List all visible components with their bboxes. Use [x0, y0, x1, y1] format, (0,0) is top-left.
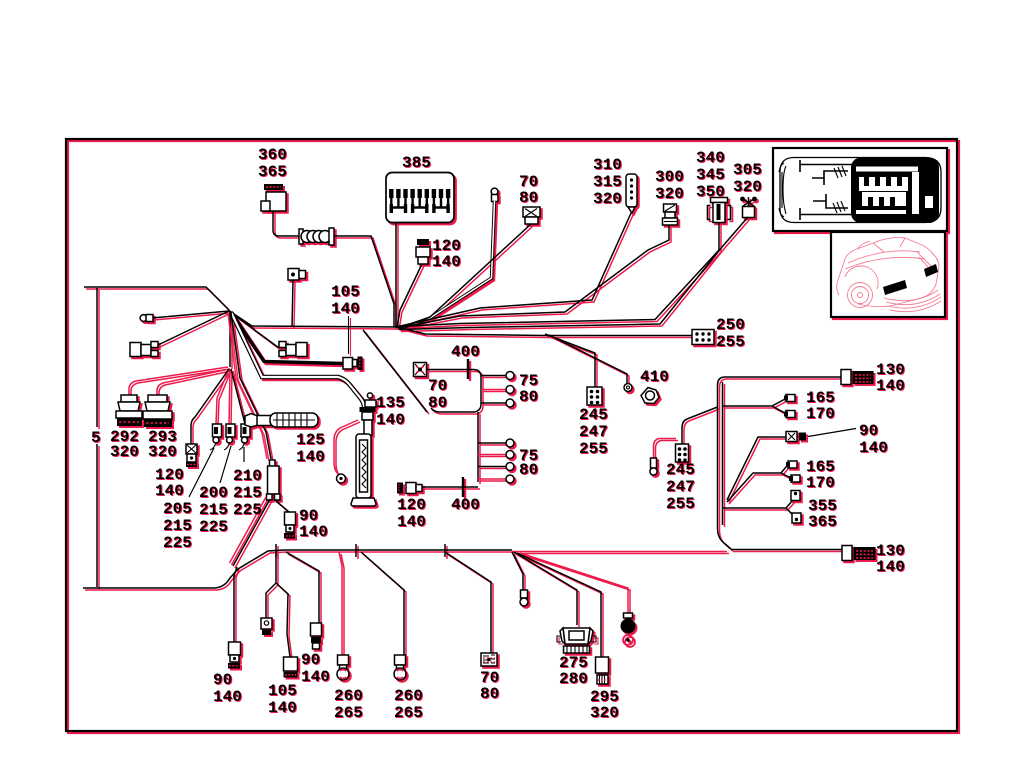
wire fan1 to connector B — [229, 311, 279, 348]
box 385 — [386, 173, 454, 223]
svg-text:320: 320 — [148, 443, 177, 461]
svg-text:140: 140 — [859, 439, 888, 457]
svg-text:255: 255 — [666, 495, 695, 513]
connector A (left plug) — [130, 343, 141, 357]
wire red to connector 292 — [129, 367, 228, 397]
svg-text:410: 410 — [640, 368, 669, 386]
border frame — [66, 139, 957, 731]
connector 250/255 — [692, 330, 714, 345]
SEC-LEFT — [83, 287, 512, 588]
wire 165/170 no2 — [727, 465, 791, 503]
wire 310 to junction2 — [398, 212, 632, 327]
wire to 275/280 — [514, 552, 577, 625]
wire 90/140 right — [727, 437, 786, 500]
svg-text:225: 225 — [199, 518, 228, 536]
wire to 260/265 no2 — [361, 552, 404, 655]
svg-text:320: 320 — [110, 443, 139, 461]
connector 70/80 bottom — [481, 653, 497, 666]
svg-text:320: 320 — [655, 185, 684, 203]
svg-text:105: 105 — [331, 283, 360, 301]
wire grommet to junction2 — [334, 236, 394, 327]
wire top-left horizontal — [84, 287, 229, 310]
wire branch to 245 box1 — [545, 334, 595, 387]
terminals 355/365 — [791, 491, 801, 524]
injector connector — [267, 460, 281, 500]
connector 130/140 bottom — [842, 546, 875, 561]
round black connector — [621, 613, 636, 645]
SEC-RIGHT — [650, 370, 875, 561]
wire 165/170 no1 — [723, 399, 787, 414]
wire 70/80 top to junction2 — [399, 224, 531, 329]
svg-text:170: 170 — [806, 474, 835, 492]
wire to round black connector — [520, 553, 628, 615]
connector 90/140 mid — [284, 512, 296, 539]
wire 120/140 mid to bus — [422, 486, 478, 488]
svg-text:105: 105 — [268, 682, 297, 700]
leader 90/140 right — [808, 429, 856, 437]
small connector 3 — [241, 424, 250, 443]
terminals 165/170 no1 — [784, 395, 795, 418]
pin terminal bottom — [520, 590, 528, 606]
svg-text:255: 255 — [579, 440, 608, 458]
wire red to connector 293 — [157, 369, 229, 398]
connector 245/247/255 box1 — [587, 387, 602, 405]
pin terminal top — [491, 188, 498, 201]
connector 135-line end (black cap) — [343, 357, 363, 371]
svg-text:245: 245 — [666, 461, 695, 479]
svg-text:140: 140 — [296, 448, 325, 466]
svg-text:350: 350 — [696, 183, 725, 201]
connector 90/140 right — [786, 432, 806, 442]
svg-text:385: 385 — [402, 154, 431, 172]
svg-text:225: 225 — [163, 534, 192, 552]
junction tick 2 — [355, 544, 357, 557]
stub g2 1 — [478, 442, 506, 444]
svg-text:80: 80 — [519, 461, 538, 479]
svg-text:90: 90 — [213, 671, 232, 689]
svg-text:140: 140 — [155, 482, 184, 500]
svg-text:247: 247 — [579, 423, 608, 441]
svg-text:320: 320 — [590, 704, 619, 722]
svg-text:140: 140 — [299, 523, 328, 541]
wire 5 vertical — [96, 288, 98, 587]
svg-text:5: 5 — [91, 429, 101, 447]
svg-text:135: 135 — [376, 394, 405, 412]
SEC-MID — [228, 312, 714, 566]
small connector 1 — [213, 424, 222, 443]
red main bottom line — [512, 551, 727, 553]
terminals 165/170 no2 — [786, 461, 800, 482]
svg-text:140: 140 — [397, 513, 426, 531]
svg-text:365: 365 — [808, 513, 837, 531]
SEC-BOTTOM — [228, 544, 727, 684]
svg-text:247: 247 — [666, 478, 695, 496]
svg-text:345: 345 — [696, 166, 725, 184]
connector B (right plug) — [279, 342, 286, 348]
device 125/140 — [245, 413, 318, 427]
svg-text:225: 225 — [233, 501, 262, 519]
red parallel of fan1-injector wire — [228, 313, 267, 459]
connector 70/80 top — [523, 207, 540, 224]
tick 400 bottom — [462, 477, 464, 497]
rings g2 — [506, 439, 514, 483]
svg-text:200: 200 — [199, 484, 228, 502]
svg-text:255: 255 — [716, 333, 745, 351]
stub g1 third — [481, 402, 506, 404]
pigtail small connector 3 — [239, 442, 245, 450]
wire to pin bottom — [512, 552, 523, 592]
stub g2 4 — [478, 478, 506, 480]
connector 90/140 bottomleft — [228, 642, 241, 669]
connector 245 box2 — [676, 444, 689, 462]
small connector 2 — [226, 424, 235, 443]
connector 310/315/320 — [626, 174, 637, 213]
terminal sleeve — [650, 458, 657, 475]
connector 295/320 — [596, 657, 609, 684]
connector 400 — [414, 363, 427, 377]
connector 260/265 no2 — [394, 655, 406, 680]
bottom line to 130/140 bottom — [731, 549, 842, 551]
main line left of junction2 — [230, 311, 398, 327]
wire to small connector 3 — [231, 369, 245, 424]
svg-text:280: 280 — [559, 670, 588, 688]
svg-text:265: 265 — [394, 704, 423, 722]
svg-text:90: 90 — [301, 651, 320, 669]
svg-text:300: 300 — [655, 168, 684, 186]
connector 360/365 — [261, 184, 286, 211]
svg-text:140: 140 — [876, 377, 905, 395]
bundle second line — [722, 382, 724, 525]
connector 292/320 — [116, 395, 142, 426]
SEC-TOPRIGHT — [398, 148, 947, 330]
svg-text:125: 125 — [296, 431, 325, 449]
svg-text:140: 140 — [213, 688, 242, 706]
svg-text:260: 260 — [334, 687, 363, 705]
svg-text:305: 305 — [733, 161, 762, 179]
connector 130/140 top — [841, 370, 873, 385]
connector 105/140 top — [288, 269, 306, 281]
red wire 245 box2 terminal — [654, 439, 677, 460]
leader 205/215/225 — [189, 448, 214, 497]
svg-text:80: 80 — [480, 685, 499, 703]
svg-text:140: 140 — [331, 300, 360, 318]
svg-text:120: 120 — [397, 496, 426, 514]
connector 340/345/350 — [708, 198, 731, 223]
svg-text:80: 80 — [519, 388, 538, 406]
wire Y-split to small square and 105/140 — [266, 551, 290, 657]
svg-text:400: 400 — [451, 343, 480, 361]
wire to 245 box2 — [682, 407, 718, 444]
pigtail small connector 2 — [224, 442, 230, 450]
wire 355/365 — [723, 500, 795, 516]
wire 340 to junction2 — [398, 222, 719, 327]
ring 410 — [624, 384, 632, 392]
stub 75 g1 — [481, 375, 506, 377]
stub g2 3 — [478, 466, 506, 468]
wire fan1 double-line to coil — [232, 313, 365, 407]
stub 80 g1 — [481, 389, 506, 391]
pigtail small connector 1 — [210, 442, 216, 450]
wire fan1 to connector A — [158, 311, 229, 345]
wire 385 to junction2 — [395, 223, 397, 328]
wire pin to junction2 — [400, 201, 495, 329]
main line junction2 to 250/255 — [397, 327, 692, 336]
svg-text:215: 215 — [163, 517, 192, 535]
wire 360/365 to grommet — [273, 211, 302, 236]
svg-text:365: 365 — [258, 163, 287, 181]
wire red to small connector 2 — [229, 369, 230, 424]
stub g2 2 — [478, 454, 506, 456]
wire 400 connector to bracket bus — [427, 370, 481, 413]
tick 400 top — [467, 359, 469, 379]
junction tick 3 — [444, 544, 446, 557]
wire 120/140 top to junction2 — [397, 264, 422, 328]
connector 293/320 — [143, 395, 172, 427]
rings g1 — [506, 372, 514, 408]
wire branch to 410 — [549, 335, 627, 383]
wire to 295/320 — [517, 553, 601, 657]
wire 300 to junction2 — [398, 225, 669, 328]
nut 410 — [641, 388, 659, 404]
svg-text:140: 140 — [268, 699, 297, 717]
wire injector to bottom junction — [233, 499, 270, 566]
svg-text:205: 205 — [163, 500, 192, 518]
coil 135/140 assembly — [351, 393, 376, 506]
heavy wire fan1 to 400 connector — [231, 312, 343, 364]
svg-text:260: 260 — [394, 687, 423, 705]
bundle vertical main — [718, 377, 842, 549]
connector 300/320 — [663, 204, 678, 225]
grommet — [299, 228, 334, 245]
svg-text:70: 70 — [428, 377, 447, 395]
wire fan1 to injector top — [231, 313, 271, 459]
svg-text:90: 90 — [859, 422, 878, 440]
connector 120/140 mid — [397, 483, 422, 494]
svg-text:215: 215 — [233, 484, 262, 502]
svg-text:310: 310 — [593, 156, 622, 174]
leader 105/140 — [348, 316, 350, 354]
wire 305 to junction2 — [399, 217, 748, 330]
connector 120/140 top — [416, 239, 430, 264]
svg-text:250: 250 — [716, 316, 745, 334]
connector 90/140 no2 — [311, 623, 322, 649]
junction tick 1 — [275, 544, 277, 557]
svg-text:210: 210 — [233, 467, 262, 485]
wire to 70/80 bottom — [445, 552, 491, 653]
leader 200/215/225 — [220, 446, 231, 483]
svg-text:80: 80 — [428, 394, 447, 412]
wire to 260/265 no1 — [339, 552, 342, 655]
svg-text:215: 215 — [199, 501, 228, 519]
wire fan1 to pin terminal — [152, 311, 229, 318]
car top-view box — [773, 148, 947, 231]
connector 275/280 — [557, 628, 596, 653]
wire bottom-left horizontal — [83, 550, 512, 588]
svg-text:140: 140 — [876, 558, 905, 576]
svg-text:320: 320 — [733, 178, 762, 196]
svg-text:265: 265 — [334, 704, 363, 722]
svg-text:340: 340 — [696, 149, 725, 167]
wire diagonal to bracket2 — [363, 330, 427, 412]
connector 120/140 left — [186, 444, 197, 467]
connector 305/320 — [740, 197, 757, 218]
svg-text:170: 170 — [806, 405, 835, 423]
svg-text:400: 400 — [451, 496, 480, 514]
wire fan1 down to fan2 — [229, 311, 231, 367]
wire bottom junction to 90/140 bottomleft — [234, 567, 237, 642]
svg-text:315: 315 — [593, 173, 622, 191]
svg-text:140: 140 — [376, 411, 405, 429]
connector 260/265 no1 — [337, 655, 349, 680]
ignition pins 385 — [389, 189, 450, 213]
svg-text:140: 140 — [301, 668, 330, 686]
wire red to small connector 1 — [216, 369, 229, 424]
small square connector — [261, 618, 272, 635]
eyelet terminal — [337, 474, 346, 483]
svg-text:245: 245 — [579, 406, 608, 424]
red wire eyelet — [334, 420, 358, 474]
svg-text:140: 140 — [432, 253, 461, 271]
SEC-TOPMID — [230, 173, 541, 355]
connector 105/140 bottom — [284, 657, 298, 678]
pin terminal left — [140, 315, 147, 322]
svg-text:360: 360 — [258, 146, 287, 164]
wire to connector 120/140 left — [191, 369, 229, 444]
wire to 90/140 no2 — [286, 552, 319, 623]
car sketch box — [831, 232, 945, 317]
svg-text:80: 80 — [519, 189, 538, 207]
wire 105/140 top stem — [292, 281, 293, 328]
leader 210/215/225 — [243, 447, 245, 462]
svg-text:320: 320 — [593, 190, 622, 208]
wire injector to 90/140 mid — [275, 500, 289, 512]
